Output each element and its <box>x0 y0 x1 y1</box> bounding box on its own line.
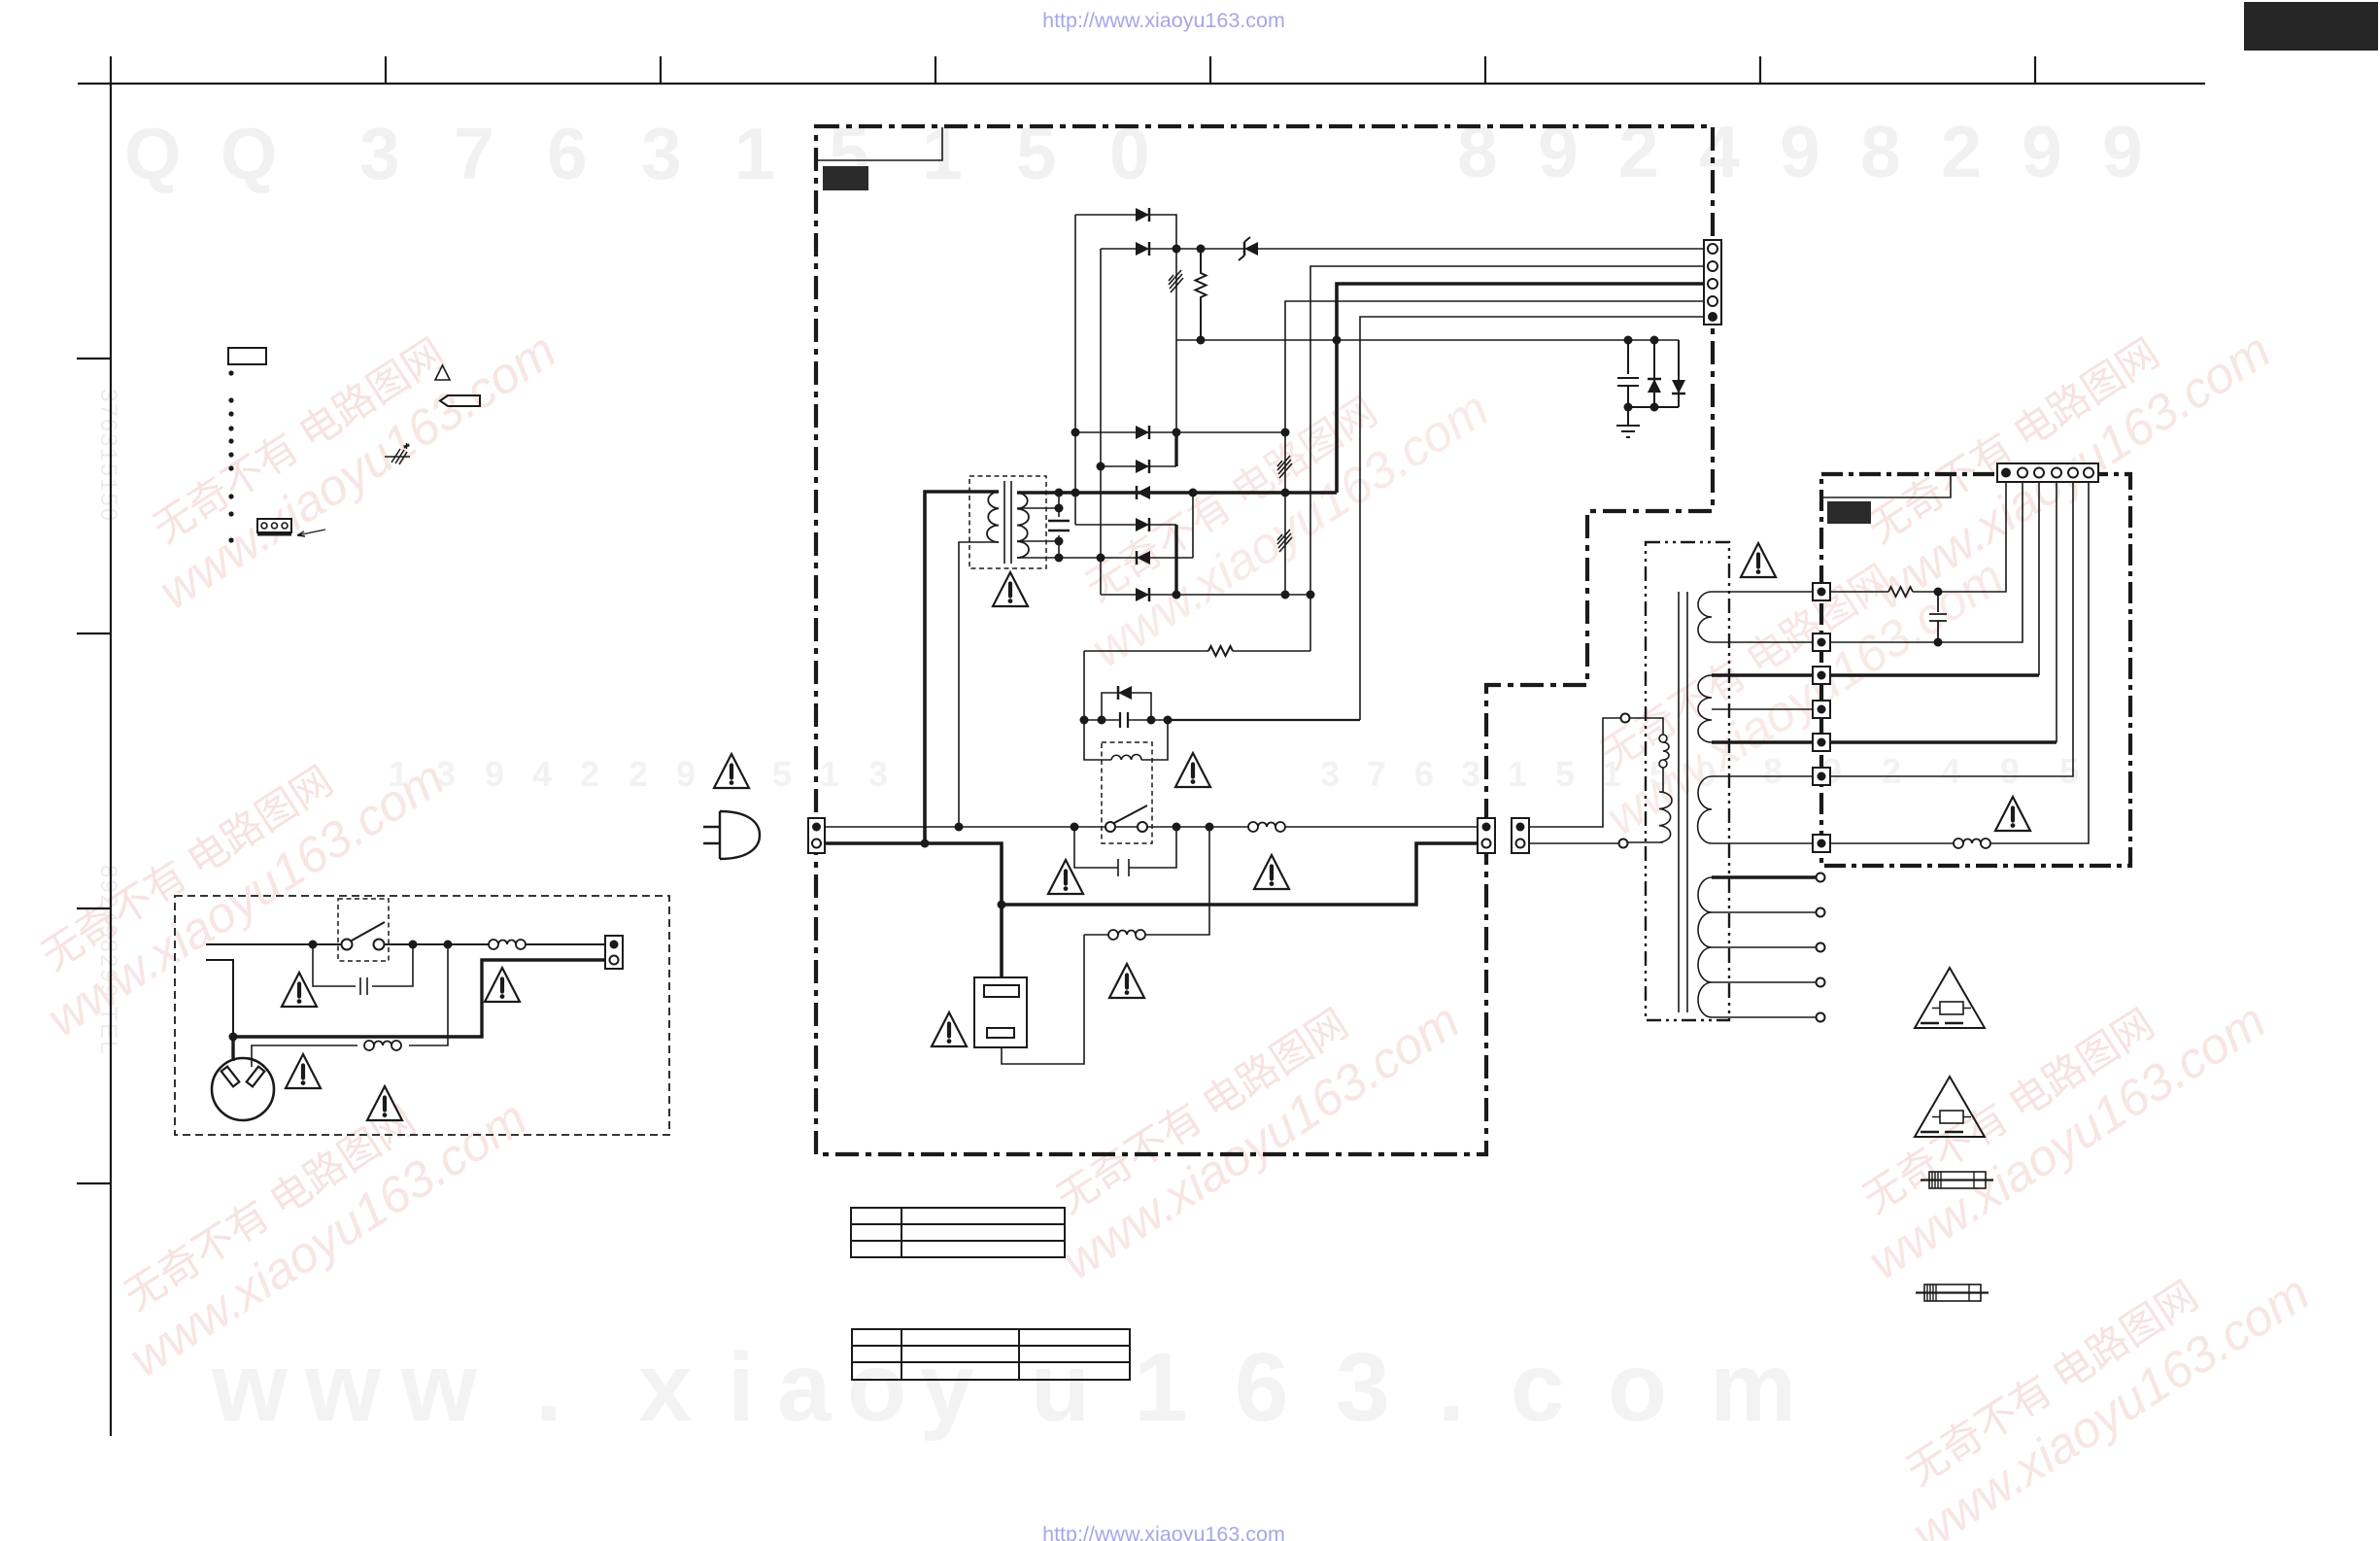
svg-text:4: 4 <box>1699 111 1740 192</box>
legend connector <box>257 519 291 532</box>
svg-text:y: y <box>920 1333 974 1442</box>
svg-text:1: 1 <box>734 113 775 194</box>
LF secondary winding <box>1017 493 1029 558</box>
svg-text:x: x <box>638 1333 693 1442</box>
svg-text:2: 2 <box>629 754 648 794</box>
wire posistor return loop <box>1002 935 1084 1064</box>
wire neutral run to relay connector <box>1002 843 1478 905</box>
top tick marks <box>386 56 2035 84</box>
svg-text:9: 9 <box>2102 111 2143 192</box>
svg-text:9: 9 <box>1780 111 1820 192</box>
fuse cartridge symbol 2 <box>1924 1284 1981 1301</box>
watermark letters row3 <box>211 1333 1796 1442</box>
wire CN pin3 thick line <box>1337 284 1704 493</box>
svg-text:4: 4 <box>532 754 552 794</box>
T winding4 leads with open terminals <box>1712 875 1816 879</box>
svg-text:http://www.xiaoyu163.com: http://www.xiaoyu163.com <box>1042 1523 1285 1541</box>
diode D6 <box>1137 486 1150 499</box>
fuse triangle 2 <box>1915 1077 1985 1137</box>
wire column x1211 with fusible resistor <box>1175 249 1177 340</box>
left tick marks <box>77 359 111 1183</box>
svg-text:3: 3 <box>359 113 400 194</box>
terminal square 3 <box>1813 667 1830 684</box>
wire CN pin5 line <box>1360 317 1704 720</box>
terminal square 1 <box>1813 583 1830 600</box>
svg-text:.: . <box>1438 1333 1465 1442</box>
wire LF primary top to neutral <box>925 492 999 843</box>
wire option neutral thick run <box>233 960 605 1037</box>
option connector CN605 <box>605 936 623 969</box>
fusible resistor FR2 <box>1277 456 1292 478</box>
watermark digits row1 right <box>1457 111 2143 192</box>
svg-text:u: u <box>1031 1333 1090 1442</box>
svg-text:m: m <box>1710 1333 1796 1442</box>
node dots on live wire <box>955 823 964 832</box>
watermark pink diagonal stamps <box>9 278 2320 1541</box>
watermark digits row1 left <box>124 113 1150 194</box>
AC wall plug <box>212 1058 274 1120</box>
terminal square 4 <box>1813 701 1830 718</box>
svg-text:2: 2 <box>1941 111 1982 192</box>
diode D9 <box>1136 588 1149 601</box>
wire rowF <box>1101 594 1310 596</box>
wire to T primary top <box>1529 718 1620 827</box>
wire AC live <box>825 826 1478 828</box>
svg-text:9: 9 <box>2000 751 2020 791</box>
svg-text:1: 1 <box>1134 1333 1188 1442</box>
svg-text:6: 6 <box>1414 754 1434 794</box>
wire sq5 thick <box>1830 740 2057 744</box>
AC option dashed box <box>175 896 669 1135</box>
border left line <box>110 56 112 1436</box>
diode D8 <box>1137 551 1150 565</box>
main power PCB dash-dot outline <box>816 126 1713 1154</box>
svg-text:3: 3 <box>641 113 682 194</box>
T secondary winding 4 <box>1698 877 1712 1017</box>
legend fusible resistor <box>385 456 410 458</box>
capacitor C across switch <box>1074 827 1176 876</box>
wire row962 <box>1084 827 1209 935</box>
svg-text:6: 6 <box>547 113 588 194</box>
connector CN603 <box>1512 818 1529 853</box>
fuse F601 <box>1248 822 1285 832</box>
wire to T primary bottom <box>1529 842 1618 844</box>
svg-text:o: o <box>847 1333 906 1442</box>
transformer T outline dash-dot-dot <box>1646 542 1729 1020</box>
svg-text:5: 5 <box>772 754 792 794</box>
wire CN pin2 line <box>1310 266 1704 651</box>
fusible resistor FR1 <box>1169 270 1183 292</box>
svg-text:w: w <box>211 1333 288 1442</box>
secondary PCB blacked-out label <box>1827 501 1871 524</box>
svg-text:w: w <box>304 1333 381 1442</box>
diode D10 bypass loop <box>1102 693 1151 720</box>
svg-text:o: o <box>1608 1333 1667 1442</box>
fuse F604 <box>489 940 526 949</box>
wire sq7 with fuse <box>1830 477 2089 843</box>
diode D4 <box>1136 426 1149 439</box>
svg-text:7: 7 <box>454 113 494 194</box>
connector CN602 <box>1478 818 1495 853</box>
svg-text:9: 9 <box>676 754 696 794</box>
wire rowA <box>1075 431 1285 433</box>
wire row221 <box>1075 215 1176 249</box>
black tab top-right corner <box>2244 2 2378 51</box>
AC inlet connector CN <box>808 818 825 853</box>
svg-text:2: 2 <box>580 754 599 794</box>
fuse F603 <box>1954 839 1990 848</box>
wire column x1133 <box>1100 249 1102 595</box>
T core <box>1679 592 1687 1012</box>
wire sq3 thick <box>1830 673 2039 677</box>
legend bullets <box>228 370 233 542</box>
wire row670 <box>1084 651 1310 720</box>
wire row741 with capacitor C <box>1084 719 1168 721</box>
table 1 <box>851 1208 1065 1257</box>
fuse cartridge symbol 1 <box>1929 1172 1986 1188</box>
terminal square 5 <box>1813 734 1830 751</box>
wire AC neutral thick <box>825 843 1002 977</box>
svg-text:2: 2 <box>1882 751 1901 791</box>
wire row256 to CN pin1 <box>1101 248 1704 250</box>
wire rowE <box>1017 493 1193 558</box>
svg-text:8: 8 <box>1457 111 1498 192</box>
wire LF secondary taps <box>1017 493 1059 558</box>
svg-text:9: 9 <box>485 754 504 794</box>
svg-text:5: 5 <box>1555 754 1575 794</box>
fusible resistor FR3 <box>1277 530 1292 552</box>
relay coil <box>1084 720 1168 760</box>
wire rowD <box>1075 524 1176 526</box>
resistor R2 <box>1208 646 1233 656</box>
line filter transformer LF601 dashed box <box>969 476 1046 568</box>
wire sq6 <box>1830 477 2073 776</box>
diode D2 <box>1136 242 1149 256</box>
wire LF primary bottom to live <box>959 542 999 827</box>
capacitor C sq1-sq2 <box>1929 592 1947 642</box>
T primary winding with taps <box>1630 718 1663 735</box>
wire rowB <box>1101 465 1176 467</box>
svg-text:3: 3 <box>868 754 888 794</box>
resistor R1 <box>1196 249 1207 340</box>
watermark digits row2 <box>389 751 2079 794</box>
svg-text:2: 2 <box>1618 111 1659 192</box>
wire ground bottom bus <box>1628 406 1679 408</box>
svg-text:4: 4 <box>1941 751 1960 791</box>
AC plug <box>703 811 760 859</box>
border top line <box>78 83 2205 85</box>
terminal square 2 <box>1813 634 1830 651</box>
svg-text:c: c <box>1511 1333 1565 1442</box>
svg-text:a: a <box>777 1333 833 1442</box>
fuse F602 <box>1108 930 1145 940</box>
svg-text:9: 9 <box>1538 111 1579 192</box>
terminal square 7 <box>1813 835 1830 852</box>
secondary output connector CN604 <box>1997 463 2098 482</box>
diode D5 <box>1136 460 1149 473</box>
T secondary winding 1 <box>1698 592 1712 642</box>
zener diode D3 <box>1244 242 1258 256</box>
svg-text:3: 3 <box>1320 754 1340 794</box>
T secondary winding 3 <box>1698 776 1712 843</box>
wire to fuse F605 <box>252 944 448 1067</box>
svg-text:5: 5 <box>2059 751 2079 791</box>
svg-text:7: 7 <box>1367 754 1386 794</box>
legend arrow flag <box>440 395 480 406</box>
svg-text:.: . <box>535 1333 562 1442</box>
svg-text:6: 6 <box>1235 1333 1289 1442</box>
svg-text:w: w <box>400 1333 477 1442</box>
svg-text:3: 3 <box>1461 754 1480 794</box>
main PCB label notch <box>817 127 942 160</box>
LF primary winding <box>987 492 999 542</box>
svg-text:www.xiaoyu163.com: www.xiaoyu163.com <box>1903 1265 2320 1541</box>
secondary PCB label notch <box>1821 475 1951 497</box>
svg-text:i: i <box>728 1333 755 1442</box>
legend box <box>228 348 266 364</box>
switch S602 dashed box <box>338 899 389 961</box>
svg-text:376315150: 376315150 <box>95 389 121 523</box>
svg-text:1: 1 <box>1508 754 1527 794</box>
wire option neutral <box>206 960 233 1033</box>
degauss posistor box <box>974 977 1027 1047</box>
LF core <box>1004 481 1011 564</box>
wire rowC thick positive rail <box>1017 491 1337 495</box>
svg-text:8: 8 <box>1763 751 1783 791</box>
wire CN pin4 line <box>1285 301 1704 595</box>
switch S601 contacts <box>1105 822 1115 832</box>
table 2 <box>852 1329 1130 1380</box>
capacitor C across S602 <box>313 944 413 995</box>
ground <box>1616 407 1640 437</box>
main PCB blacked-out label <box>823 166 868 190</box>
svg-text:http://www.xiaoyu163.com: http://www.xiaoyu163.com <box>1042 9 1285 32</box>
svg-text:3: 3 <box>1336 1333 1390 1442</box>
diode D12 down <box>1678 340 1680 407</box>
svg-text:1: 1 <box>820 754 839 794</box>
wire sq2 <box>1830 477 2023 642</box>
T secondary winding 2 <box>1698 675 1712 742</box>
wire option live <box>206 943 605 945</box>
capacitor C to ground <box>1617 340 1639 407</box>
fuse triangle 1 <box>1915 968 1985 1028</box>
svg-text:9: 9 <box>2022 111 2062 192</box>
diode D11 up <box>1653 340 1655 407</box>
wire sq1 with resistor R <box>1830 591 1888 593</box>
diode D7 <box>1136 518 1149 531</box>
legend triangle <box>435 365 450 380</box>
relay RY601 dashed box <box>1102 742 1152 843</box>
svg-text:Q: Q <box>124 113 181 194</box>
svg-text:Q: Q <box>221 113 277 194</box>
terminal square 6 <box>1813 768 1830 785</box>
fuse F605 <box>364 1041 401 1050</box>
secondary PCB dash-dot outline <box>1821 474 2130 866</box>
wire row350 sense line <box>1176 339 1679 341</box>
wire column x1107 <box>1074 215 1076 525</box>
svg-text:8: 8 <box>1860 111 1901 192</box>
diode D1 <box>1136 208 1149 222</box>
capacitor C across LF secondary <box>1048 521 1070 531</box>
